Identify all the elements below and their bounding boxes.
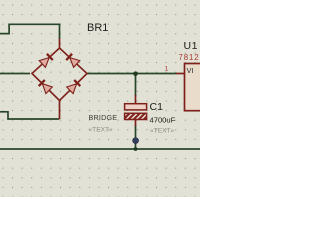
schematic background (0, 0, 200, 197)
wire: left AC input to bridge left vertex (0, 73, 30, 75)
svg-text:BR1: BR1 (87, 22, 108, 34)
wire: junction down to C1 (135, 74, 137, 96)
svg-text:C1: C1 (150, 101, 164, 113)
diode D-BR cathode bar (74, 80, 80, 86)
node: blue via dot on C1 ground lead (133, 138, 139, 144)
bridge BR1 diamond outline (32, 48, 87, 101)
diode D-TL triangle (39, 58, 49, 68)
regulator U1 body box (185, 64, 203, 111)
svg-text:1: 1 (165, 66, 169, 73)
svg-text:VI: VI (187, 66, 194, 75)
wire: bridge + output to U1 input (87, 73, 177, 75)
regulator U1 pin 1 lead (176, 73, 185, 75)
wire: transformer top lead jog to bridge AC1 (0, 24, 60, 39)
wire: transformer bottom lead jog to bridge bottom (0, 112, 59, 119)
capacitor C1 leads (135, 95, 137, 126)
capacitor C1 bottom plate (hatched) (125, 113, 147, 119)
svg-text:«TEXT»: «TEXT» (150, 128, 175, 135)
wire: ground rail (0, 148, 200, 150)
node: junction dot at C1 top (133, 71, 138, 76)
svg-text:U1: U1 (184, 40, 199, 52)
bridge BR1 pins (top and bottom legs) (59, 39, 61, 120)
diode D-TR triangle (70, 58, 80, 68)
svg-text:BRIDGE: BRIDGE (89, 113, 118, 122)
diode D-TR cathode bar (66, 54, 72, 60)
diode D-BR triangle (67, 84, 77, 94)
diode D-BL cathode bar (39, 80, 45, 86)
diode D-BL triangle (42, 84, 52, 94)
svg-text:7812: 7812 (179, 53, 200, 62)
node: junction blob on ground rail (134, 147, 138, 151)
svg-text:4700uF: 4700uF (150, 116, 176, 125)
wire: C1 bottom to ground rail (135, 125, 137, 149)
capacitor C1 top plate (125, 104, 147, 110)
diode D-TL cathode bar (47, 54, 53, 60)
svg-text:«TEXT»: «TEXT» (89, 127, 114, 134)
